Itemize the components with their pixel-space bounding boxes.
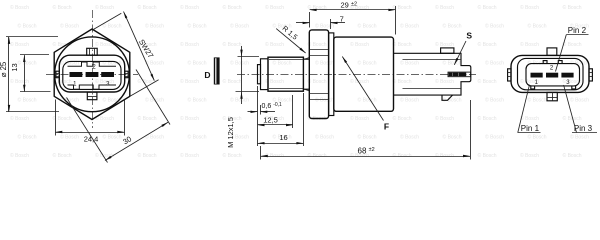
svg-text:© Bosch: © Bosch — [315, 23, 334, 30]
svg-text:© Bosch: © Bosch — [478, 115, 497, 122]
svg-text:13: 13 — [10, 63, 19, 71]
svg-text:D: D — [204, 70, 210, 80]
svg-text:© Bosch: © Bosch — [393, 41, 412, 48]
svg-text:© Bosch: © Bosch — [18, 97, 37, 104]
svg-text:© Bosch: © Bosch — [528, 23, 547, 30]
svg-text:© Bosch: © Bosch — [358, 23, 377, 30]
svg-text:© Bosch: © Bosch — [308, 152, 327, 159]
svg-text:© Bosch: © Bosch — [563, 41, 582, 48]
svg-text:© Bosch: © Bosch — [188, 60, 207, 67]
svg-text:© Bosch: © Bosch — [18, 134, 37, 141]
svg-text:© Bosch: © Bosch — [10, 115, 29, 122]
svg-text:© Bosch: © Bosch — [528, 134, 547, 141]
svg-text:© Bosch: © Bosch — [18, 60, 37, 67]
svg-text:© Bosch: © Bosch — [180, 78, 199, 85]
svg-text:© Bosch: © Bosch — [443, 23, 462, 30]
svg-text:© Bosch: © Bosch — [570, 134, 589, 141]
svg-text:© Bosch: © Bosch — [103, 23, 122, 30]
svg-text:© Bosch: © Bosch — [570, 97, 589, 104]
svg-text:© Bosch: © Bosch — [265, 152, 284, 159]
svg-text:© Bosch: © Bosch — [10, 41, 29, 48]
svg-text:F: F — [384, 122, 389, 132]
svg-text:© Bosch: © Bosch — [223, 152, 242, 159]
svg-text:12,5: 12,5 — [263, 115, 278, 124]
svg-text:© Bosch: © Bosch — [478, 78, 497, 85]
svg-text:© Bosch: © Bosch — [563, 4, 582, 11]
svg-text:© Bosch: © Bosch — [400, 23, 419, 30]
svg-text:© Bosch: © Bosch — [308, 78, 327, 85]
svg-text:© Bosch: © Bosch — [230, 60, 249, 67]
svg-text:© Bosch: © Bosch — [180, 115, 199, 122]
svg-text:© Bosch: © Bosch — [520, 115, 539, 122]
svg-text:Pin 3: Pin 3 — [574, 124, 593, 133]
svg-text:© Bosch: © Bosch — [393, 152, 412, 159]
svg-text:© Bosch: © Bosch — [350, 115, 369, 122]
svg-text:© Bosch: © Bosch — [358, 97, 377, 104]
svg-text:© Bosch: © Bosch — [400, 134, 419, 141]
svg-text:7: 7 — [340, 15, 344, 24]
svg-text:© Bosch: © Bosch — [53, 4, 72, 11]
svg-text:© Bosch: © Bosch — [393, 115, 412, 122]
svg-text:© Bosch: © Bosch — [145, 23, 164, 30]
svg-text:S: S — [466, 31, 472, 41]
svg-text:© Bosch: © Bosch — [180, 4, 199, 11]
svg-text:© Bosch: © Bosch — [315, 134, 334, 141]
svg-text:© Bosch: © Bosch — [95, 4, 114, 11]
svg-text:© Bosch: © Bosch — [393, 78, 412, 85]
svg-text:© Bosch: © Bosch — [60, 23, 79, 30]
svg-text:© Bosch: © Bosch — [485, 134, 504, 141]
svg-text:© Bosch: © Bosch — [188, 134, 207, 141]
svg-text:© Bosch: © Bosch — [478, 152, 497, 159]
svg-text:© Bosch: © Bosch — [400, 60, 419, 67]
svg-text:© Bosch: © Bosch — [60, 60, 79, 67]
svg-text:© Bosch: © Bosch — [188, 23, 207, 30]
svg-text:© Bosch: © Bosch — [138, 115, 157, 122]
svg-text:© Bosch: © Bosch — [18, 23, 37, 30]
svg-text:Pin 1: Pin 1 — [521, 124, 540, 133]
svg-text:© Bosch: © Bosch — [478, 4, 497, 11]
svg-text:© Bosch: © Bosch — [358, 60, 377, 67]
svg-text:© Bosch: © Bosch — [60, 134, 79, 141]
svg-text:© Bosch: © Bosch — [223, 4, 242, 11]
svg-text:© Bosch: © Bosch — [10, 78, 29, 85]
svg-text:© Bosch: © Bosch — [265, 41, 284, 48]
svg-text:Pin 2: Pin 2 — [568, 26, 587, 35]
svg-text:⌀ 25: ⌀ 25 — [0, 61, 8, 77]
svg-text:© Bosch: © Bosch — [435, 4, 454, 11]
svg-text:16: 16 — [279, 133, 287, 142]
svg-text:© Bosch: © Bosch — [400, 97, 419, 104]
svg-text:© Bosch: © Bosch — [10, 4, 29, 11]
svg-text:© Bosch: © Bosch — [520, 41, 539, 48]
svg-text:© Bosch: © Bosch — [138, 4, 157, 11]
svg-text:© Bosch: © Bosch — [443, 60, 462, 67]
svg-text:© Bosch: © Bosch — [10, 152, 29, 159]
svg-text:© Bosch: © Bosch — [53, 152, 72, 159]
svg-text:© Bosch: © Bosch — [528, 97, 547, 104]
svg-text:© Bosch: © Bosch — [103, 134, 122, 141]
svg-text:© Bosch: © Bosch — [265, 4, 284, 11]
svg-text:© Bosch: © Bosch — [350, 41, 369, 48]
svg-text:© Bosch: © Bosch — [138, 152, 157, 159]
svg-text:© Bosch: © Bosch — [485, 97, 504, 104]
svg-text:© Bosch: © Bosch — [308, 41, 327, 48]
svg-text:© Bosch: © Bosch — [230, 97, 249, 104]
svg-text:© Bosch: © Bosch — [315, 97, 334, 104]
svg-text:© Bosch: © Bosch — [358, 134, 377, 141]
svg-text:© Bosch: © Bosch — [520, 4, 539, 11]
svg-text:© Bosch: © Bosch — [435, 152, 454, 159]
svg-text:© Bosch: © Bosch — [95, 78, 114, 85]
svg-text:© Bosch: © Bosch — [223, 78, 242, 85]
svg-text:© Bosch: © Bosch — [188, 97, 207, 104]
svg-text:© Bosch: © Bosch — [435, 78, 454, 85]
svg-text:© Bosch: © Bosch — [520, 152, 539, 159]
svg-text:© Bosch: © Bosch — [180, 41, 199, 48]
svg-text:© Bosch: © Bosch — [230, 23, 249, 30]
svg-text:© Bosch: © Bosch — [478, 41, 497, 48]
svg-text:© Bosch: © Bosch — [273, 60, 292, 67]
svg-text:© Bosch: © Bosch — [485, 23, 504, 30]
svg-text:© Bosch: © Bosch — [443, 134, 462, 141]
svg-text:M 12x1,5: M 12x1,5 — [226, 117, 235, 148]
svg-text:© Bosch: © Bosch — [315, 60, 334, 67]
svg-text:© Bosch: © Bosch — [435, 41, 454, 48]
svg-text:© Bosch: © Bosch — [223, 41, 242, 48]
svg-text:© Bosch: © Bosch — [435, 115, 454, 122]
svg-text:© Bosch: © Bosch — [485, 60, 504, 67]
svg-text:© Bosch: © Bosch — [563, 152, 582, 159]
svg-text:© Bosch: © Bosch — [103, 60, 122, 67]
svg-text:© Bosch: © Bosch — [180, 152, 199, 159]
